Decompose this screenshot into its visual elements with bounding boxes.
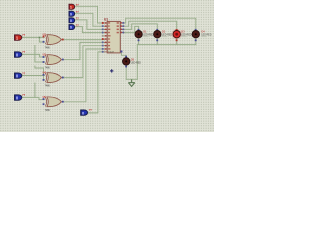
LED D3 (lit) xyxy=(171,29,191,41)
IC U1 74147 body xyxy=(104,18,120,54)
svg-text:7486: 7486 xyxy=(45,110,51,112)
svg-text:??: ?? xyxy=(22,71,26,75)
wire bottom input to U1 bottom-left pin xyxy=(87,52,105,113)
wire gate U2 output to U1 pin6 xyxy=(63,39,104,41)
svg-text:0: 0 xyxy=(70,12,72,16)
svg-text:7486: 7486 xyxy=(45,48,51,50)
logicstate top input 1 (logic 1, red) xyxy=(69,3,79,9)
wire LED D2 cathode to bus xyxy=(156,38,158,45)
svg-text:??: ?? xyxy=(76,10,80,14)
svg-text:??: ?? xyxy=(89,108,93,112)
LED D2 xyxy=(154,29,173,41)
wire U1 output D to LED D1 xyxy=(124,26,139,32)
logicstate top input 3 (logic 0, blue) xyxy=(69,17,79,23)
svg-text:74147: 74147 xyxy=(108,51,115,53)
xor gate U2 xyxy=(43,34,64,50)
svg-text:??: ?? xyxy=(76,23,80,27)
wire bus down to ground node xyxy=(136,45,138,80)
logicstate bottom input (logic 0, blue) xyxy=(81,108,92,115)
svg-text:D5: D5 xyxy=(131,57,135,61)
logicstate top input 4 (logic 0, blue) xyxy=(69,23,79,29)
svg-text:D1: D1 xyxy=(143,30,147,34)
junction dot at gate U2 input branch xyxy=(39,37,41,39)
wire U1 output B to LED D3 xyxy=(124,21,177,30)
wire branch to gate U2 lower input xyxy=(39,37,44,42)
origin marker cross xyxy=(110,69,113,72)
wire U1 bottom pin to LED D5 anode xyxy=(122,53,127,58)
svg-text:7486: 7486 xyxy=(45,68,51,70)
ground xyxy=(128,79,134,86)
wire input4 top to U1 pin4 xyxy=(74,27,104,33)
svg-text:??: ?? xyxy=(76,17,80,21)
IC U1 right pins A-D and bottom pin xyxy=(120,22,124,53)
wire left input to gate U2 upper input xyxy=(21,36,44,38)
wire LED D1 cathode to bus xyxy=(138,38,140,45)
LED D4 xyxy=(192,29,212,41)
logicstate left input 1 (logic 1, red) xyxy=(15,33,26,40)
svg-text:D2: D2 xyxy=(162,30,166,34)
wire input1 top to U1 pin1 xyxy=(74,6,104,23)
wire LED D5 cathode down xyxy=(125,65,127,79)
LED D5 xyxy=(123,56,142,68)
wire left input to gate U4 upper input xyxy=(21,75,44,77)
wire left input to gate U5 upper input xyxy=(21,97,44,99)
svg-text:7486: 7486 xyxy=(45,86,51,88)
svg-text:??: ?? xyxy=(22,50,26,54)
svg-text:??: ?? xyxy=(22,93,26,97)
xor gate U3 xyxy=(43,54,64,70)
svg-text:0: 0 xyxy=(70,19,72,23)
grid background xyxy=(0,0,214,132)
svg-text:LED-RED: LED-RED xyxy=(131,62,141,64)
wire LED D4 cathode to bus xyxy=(195,38,197,45)
svg-text:??: ?? xyxy=(22,33,26,37)
wire U1 output C to LED D2 xyxy=(124,24,157,30)
logicstate left input 2 (logic 0, blue) xyxy=(15,50,26,57)
wire U1 output A to LED D4 xyxy=(124,18,196,30)
svg-text:??: ?? xyxy=(76,3,80,7)
svg-text:D3: D3 xyxy=(181,30,185,34)
svg-text:D4: D4 xyxy=(201,30,205,34)
svg-text:1: 1 xyxy=(70,5,72,9)
wire ground link horizontal xyxy=(126,78,137,80)
xor gate U4 xyxy=(43,72,64,88)
svg-text:0: 0 xyxy=(70,26,72,30)
logicstate left input 3 (logic 0, blue) xyxy=(15,71,26,78)
wire cathode bus xyxy=(137,44,196,46)
wire gate U5 output to U1 pin9 xyxy=(63,49,104,102)
wire gate U3 output to U1 pin7 xyxy=(63,42,104,59)
wire chain to gate U4 lower input xyxy=(35,66,44,80)
wire gate U4 output to U1 pin8 xyxy=(63,46,104,78)
logicstate left input 4 (logic 0, blue) xyxy=(15,93,26,100)
wire input3 top to U1 pin3 xyxy=(74,20,104,30)
logicstate top input 2 (logic 0, blue) xyxy=(69,10,79,16)
LED D1 xyxy=(135,29,154,41)
wire input2 top to U1 pin2 xyxy=(74,13,104,26)
xor gate U5 xyxy=(43,96,64,112)
wire chain to gate U3 lower input xyxy=(35,46,44,63)
IC U1 left pins 1-9 xyxy=(102,22,107,53)
wire LED D3 cathode to bus xyxy=(176,38,178,45)
svg-text:U1: U1 xyxy=(104,18,108,22)
wire chain segment to gate U5 xyxy=(34,83,36,97)
wire left input to gate U3 upper input xyxy=(21,54,44,57)
